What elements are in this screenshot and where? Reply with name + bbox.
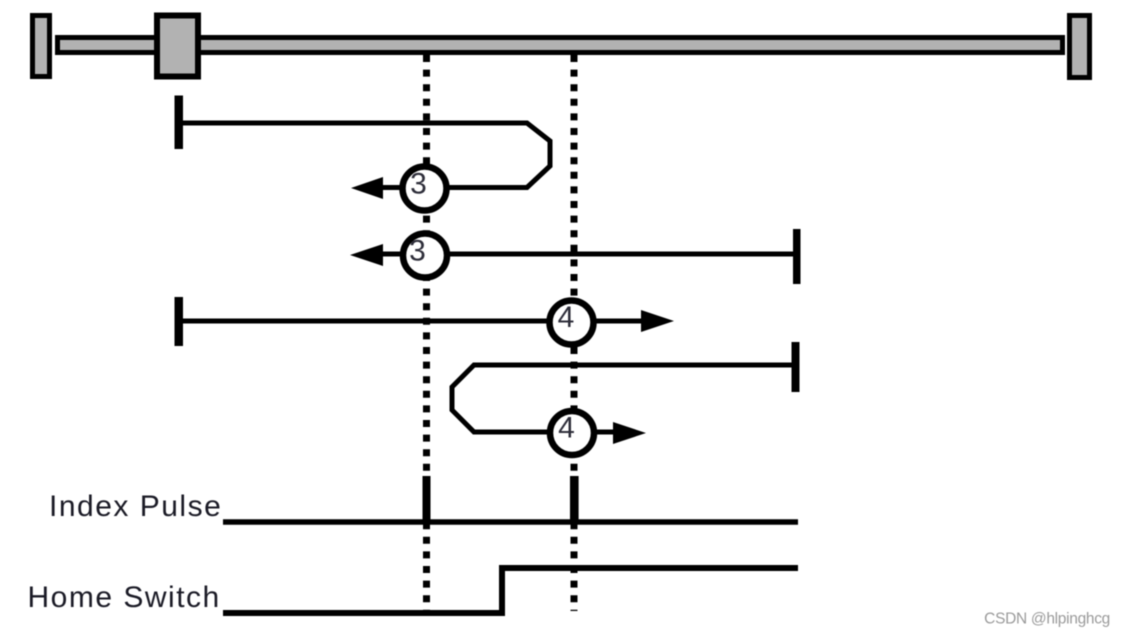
dotted reference line right (index pulse position 2) [571,55,578,611]
svg-text:Home Switch: Home Switch [28,581,221,614]
index pulse spike right [570,476,579,524]
method circle 3 (first) [403,167,447,211]
home switch step signal [223,568,798,613]
left end stop [33,16,50,77]
trajectory 3 start tick (left) [175,297,184,346]
trajectory 4 path with u-turn [452,365,795,432]
trajectory 4 arrowhead (right) [613,422,646,444]
trajectory 2 line [383,252,796,257]
method circle 3 (second) [403,234,447,278]
trajectory 2 arrowhead (left) [350,244,383,266]
trajectory 1 path with u-turn [179,123,550,188]
method circle 4 (first) [550,301,594,345]
trajectory 4 start tick (right) [792,342,800,392]
svg-text:4: 4 [558,412,575,445]
trajectory 3 arrowhead (right) [641,310,674,332]
svg-text:3: 3 [410,168,427,201]
trajectory 1 arrowhead (left) [351,177,383,199]
trajectory 1 start tick [175,96,184,150]
axis rail bar [58,38,1063,53]
svg-text:3: 3 [409,235,426,268]
right end stop [1070,16,1090,78]
svg-text:Index Pulse: Index Pulse [49,490,222,523]
trajectory 3 line [179,319,641,324]
method circle 4 (second) [550,411,594,455]
svg-text:CSDN @hlpinghcg: CSDN @hlpinghcg [984,611,1110,628]
svg-text:4: 4 [558,301,575,334]
index pulse baseline [223,519,798,525]
index pulse spike left [423,476,431,524]
slider block (home position carriage) [157,16,198,77]
dotted reference line left (index pulse position 1) [423,55,430,611]
trajectory 2 start tick (right) [793,229,801,284]
